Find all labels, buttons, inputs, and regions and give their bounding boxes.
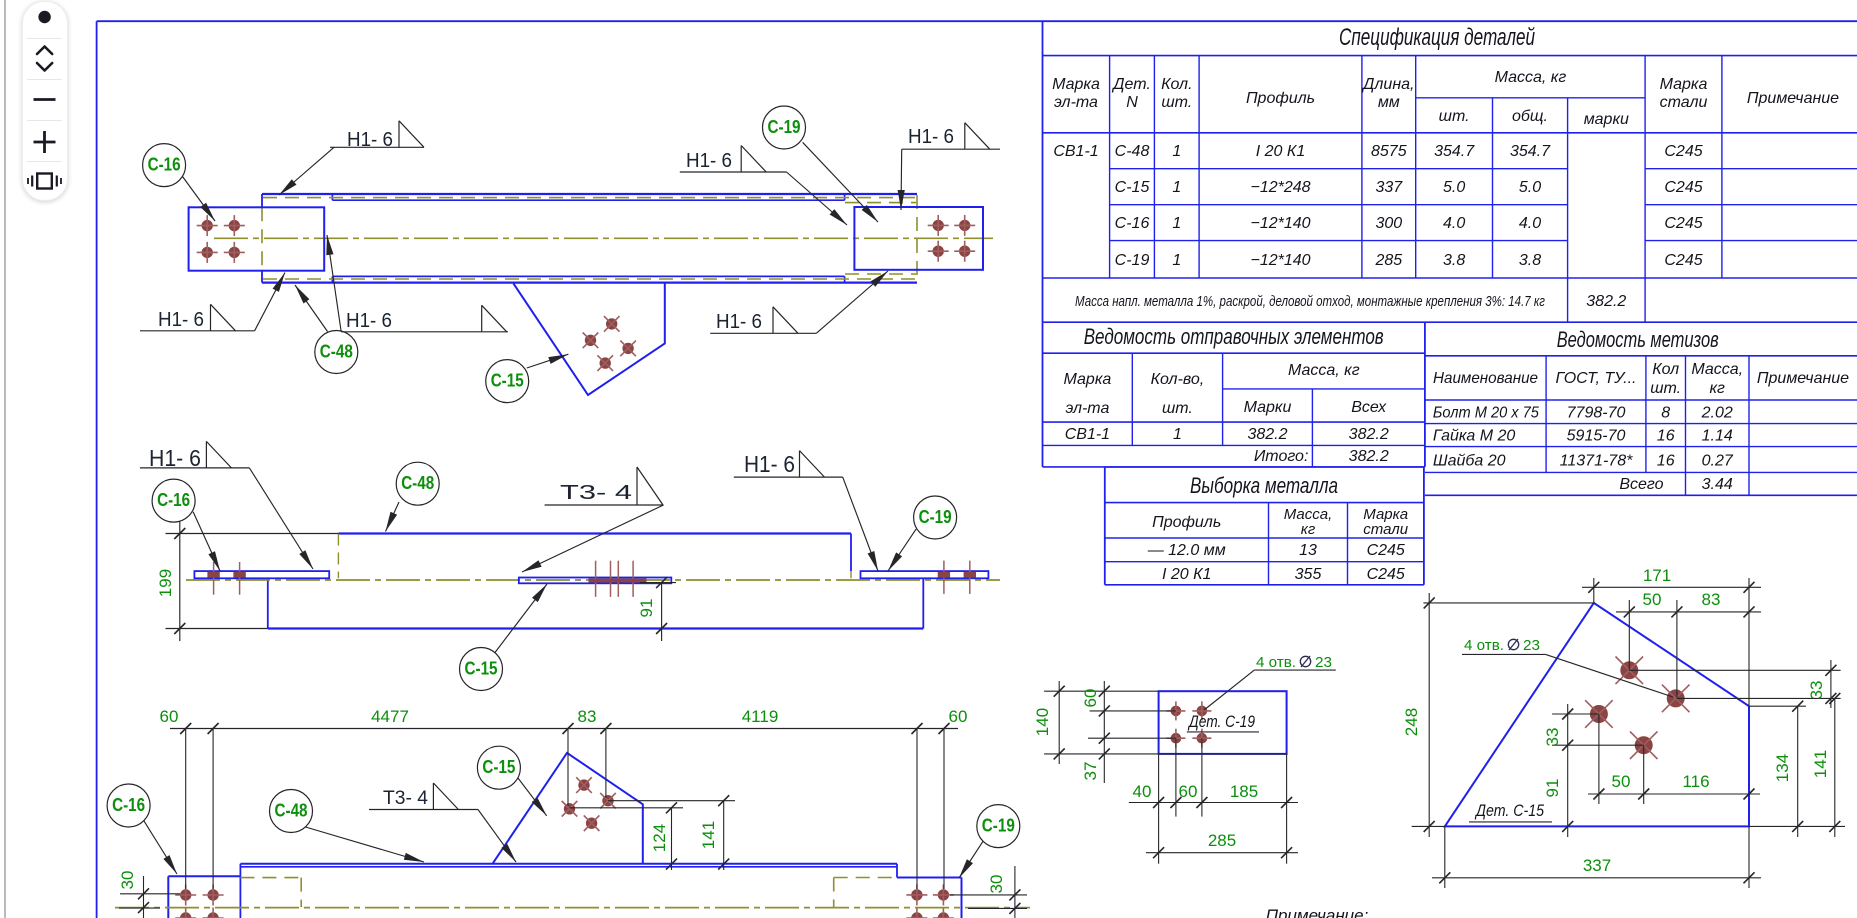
leader to gusset strip: [522, 505, 664, 572]
svg-text:0.27: 0.27: [1702, 453, 1734, 470]
svg-text:355: 355: [1295, 566, 1322, 583]
elevation: bolts on С-16 strip: [207, 562, 245, 595]
leader from С-16 balloon (elev): [193, 512, 220, 571]
svg-text:60: 60: [949, 707, 968, 726]
svg-text:Дет. С-19: Дет. С-19: [1187, 712, 1255, 731]
svg-text:16: 16: [1657, 453, 1675, 470]
svg-text:11371-78*: 11371-78*: [1560, 453, 1633, 470]
svg-text:Масса, кг: Масса, кг: [1288, 362, 1360, 379]
svg-text:1: 1: [1173, 426, 1182, 443]
svg-text:С245: С245: [1664, 143, 1702, 160]
leader from С-15 balloon (bottom): [518, 778, 547, 816]
main dimension chain 60/4477/83/4119/60: [160, 707, 968, 889]
bottom view: beam top edge (double line): [240, 864, 897, 918]
detail С-15: dimensions 50/116 (mid): [1588, 714, 1760, 804]
svg-text:С-19: С-19: [1115, 252, 1150, 269]
dimension 91 (elevation): [637, 577, 676, 641]
svg-text:13: 13: [1299, 542, 1317, 559]
svg-text:300: 300: [1375, 215, 1402, 232]
svg-text:С-48: С-48: [401, 473, 434, 493]
svg-text:2.02: 2.02: [1701, 405, 1733, 422]
svg-text:С245: С245: [1664, 215, 1702, 232]
floating view toolbar: [22, 1, 68, 201]
svg-text:16: 16: [1657, 428, 1675, 445]
balloon С-48 (bottom): [270, 790, 313, 833]
svg-text:354.7: 354.7: [1434, 143, 1475, 160]
bottom view: gusset С-15: [492, 753, 643, 864]
svg-text:33: 33: [1543, 728, 1562, 747]
svg-text:СВ1-1: СВ1-1: [1053, 143, 1098, 160]
svg-text:Марка: Марка: [1064, 371, 1112, 388]
plan view: end plate С-19: [854, 207, 983, 270]
svg-text:199: 199: [156, 569, 175, 597]
svg-text:382.2: 382.2: [1349, 426, 1389, 443]
svg-text:Масса, кг: Масса, кг: [1495, 69, 1567, 86]
detail С-19: dimensions 40/60/185: [1129, 738, 1298, 864]
svg-text:Наименование: Наименование: [1433, 370, 1538, 387]
svg-text:1: 1: [1172, 179, 1181, 196]
detail С-19: bolt holes: [1166, 701, 1211, 747]
svg-text:С-48: С-48: [275, 801, 308, 821]
svg-text:141: 141: [1811, 750, 1830, 778]
svg-text:23: 23: [1315, 654, 1332, 671]
svg-text:эл-та: эл-та: [1065, 400, 1109, 417]
weld label H1-6 (plan bottom-centre): [341, 305, 508, 332]
bolts on С-19 (bottom view): [906, 884, 954, 918]
svg-text:С245: С245: [1664, 179, 1702, 196]
detail С-19: plate outline: [1159, 691, 1287, 754]
svg-text:H1- 6: H1- 6: [744, 451, 795, 477]
svg-text:185: 185: [1230, 782, 1258, 801]
svg-text:С245: С245: [1367, 542, 1405, 559]
weld label Т3-4 (elevation): [545, 467, 664, 505]
leader to С-16 plate edge: [327, 235, 341, 332]
svg-text:60: 60: [160, 707, 179, 726]
balloon С-16 (bottom): [107, 784, 150, 827]
svg-text:Длина,: Длина,: [1361, 76, 1414, 93]
svg-text:H1- 6: H1- 6: [158, 309, 204, 331]
weld label H1-6 (plan top-left): [330, 121, 424, 151]
plan view: centreline: [214, 237, 993, 239]
svg-text:С-15: С-15: [491, 371, 524, 391]
detail С-15: note 4 отв. ∅23: [1462, 637, 1673, 697]
bolts on С-16 (bottom view): [175, 885, 223, 918]
bottom view: hidden plate edges (dashed): [240, 878, 897, 908]
svg-text:4.0: 4.0: [1443, 215, 1465, 232]
svg-text:С-16: С-16: [148, 155, 181, 175]
zoom in icon: [34, 131, 56, 153]
svg-text:−12*140: −12*140: [1250, 215, 1310, 232]
svg-text:эл-та: эл-та: [1054, 94, 1098, 111]
leader from С-19 balloon: [803, 142, 878, 222]
svg-text:H1- 6: H1- 6: [149, 445, 201, 471]
leader to С-19 plate weld: [816, 271, 888, 333]
balloon С-19 (plan): [763, 106, 806, 149]
svg-text:шт.: шт.: [1161, 94, 1192, 111]
detail С-15: dimensions 33/91 (left): [1543, 704, 1644, 837]
leader to С-16 strip: [249, 468, 313, 569]
svg-text:Болт М 20 х 75: Болт М 20 х 75: [1433, 405, 1539, 422]
dimension 30 (bottom right): [950, 866, 1027, 918]
elevation: bolts on С-19 strip: [938, 561, 976, 594]
svg-text:382.2: 382.2: [1586, 293, 1626, 310]
svg-text:С245: С245: [1664, 252, 1702, 269]
svg-text:141: 141: [699, 821, 718, 849]
leader from С-19 balloon (bottom): [959, 841, 983, 878]
detail С-19: note 4 отв. ∅23: [1204, 654, 1336, 710]
detail С-15: title Дет. С-15: [1469, 801, 1552, 822]
weld label H1-6 (plan, before С-19): [680, 146, 787, 173]
svg-text:60: 60: [1179, 782, 1198, 801]
fit to view icon: [28, 174, 61, 189]
table: Специфик. деталей text: [1052, 24, 1839, 310]
svg-text:Кол-во,: Кол-во,: [1151, 371, 1205, 388]
svg-text:5915-70: 5915-70: [1567, 428, 1626, 445]
svg-text:1.14: 1.14: [1702, 428, 1733, 445]
svg-text:337: 337: [1375, 179, 1403, 196]
svg-text:37: 37: [1081, 762, 1100, 781]
svg-text:Шайба 20: Шайба 20: [1433, 453, 1506, 470]
elevation: gusset С-15 strip: [519, 578, 672, 584]
svg-text:140: 140: [1033, 708, 1052, 736]
leader to beam corner: [279, 147, 334, 195]
svg-text:С-19: С-19: [919, 507, 952, 527]
table: Ведомость отправочных элементов: [1043, 322, 1425, 467]
svg-text:С-19: С-19: [768, 117, 801, 137]
svg-text:50: 50: [1612, 772, 1631, 791]
svg-text:С-16: С-16: [1115, 215, 1150, 232]
svg-text:4119: 4119: [742, 707, 779, 726]
svg-text:1: 1: [1172, 143, 1181, 160]
svg-text:СВ1-1: СВ1-1: [1065, 426, 1110, 443]
svg-text:248: 248: [1402, 708, 1421, 736]
elevation: centreline: [186, 579, 1000, 581]
svg-text:1: 1: [1172, 215, 1181, 232]
svg-text:8575: 8575: [1371, 143, 1407, 160]
svg-text:мм: мм: [1378, 94, 1400, 111]
svg-text:4477: 4477: [371, 707, 409, 726]
svg-text:кг: кг: [1301, 521, 1316, 538]
svg-text:Масса напл. металла 1%, раскро: Масса напл. металла 1%, раскрой, деловой…: [1075, 294, 1545, 310]
svg-text:Кол: Кол: [1652, 361, 1679, 378]
leader to С-19 plate: [787, 172, 848, 225]
plan view: beam СВ1-1: [262, 194, 917, 283]
detail С-15: bolt holes: [1585, 657, 1689, 760]
svg-text:H1- 6: H1- 6: [686, 150, 732, 172]
expand chevrons icon: [37, 47, 52, 71]
svg-text:5.0: 5.0: [1443, 179, 1465, 196]
plan view: gusset С-15 under beam: [513, 283, 664, 395]
detail С-15: dimension 141: [1749, 693, 1845, 837]
balloon С-19 (bottom): [977, 805, 1020, 848]
svg-text:Марки: Марки: [1244, 399, 1292, 416]
balloon С-48 (plan): [315, 331, 358, 374]
svg-text:— 12.0 мм: — 12.0 мм: [1147, 542, 1226, 559]
svg-text:382.2: 382.2: [1349, 448, 1389, 465]
detail С-15: dimension 33 (right): [1629, 660, 1840, 708]
weld label H1-6 (elevation right): [734, 451, 843, 478]
elevation: plate С-19 strip: [861, 571, 989, 578]
svg-text:С-15: С-15: [482, 757, 515, 777]
svg-text:91: 91: [1543, 779, 1562, 798]
svg-text:Т3- 4: Т3- 4: [560, 482, 632, 504]
svg-text:Масса,: Масса,: [1691, 361, 1743, 378]
svg-text:91: 91: [637, 599, 656, 618]
svg-text:H1- 6: H1- 6: [716, 311, 762, 333]
svg-text:Кол.: Кол.: [1161, 76, 1192, 93]
leader to gusset weld: [478, 810, 516, 863]
elevation: bolts on С-15 strip: [589, 561, 647, 597]
svg-text:Марка: Марка: [1660, 76, 1708, 93]
weld label H1-6 (plan bottom-left): [140, 304, 255, 331]
leader from С-15 balloon (elev): [495, 584, 547, 653]
leader from С-16 balloon (bottom): [144, 821, 177, 874]
svg-text:Профиль: Профиль: [1246, 90, 1315, 107]
svg-text:83: 83: [578, 707, 597, 726]
balloon С-15 (bottom): [477, 746, 520, 789]
svg-text:N: N: [1126, 94, 1138, 111]
svg-text:С-15: С-15: [465, 659, 498, 679]
svg-text:С-19: С-19: [982, 816, 1015, 836]
svg-text:шт.: шт.: [1439, 108, 1470, 125]
collapsed side panel edge: [4, 0, 6, 918]
svg-text:40: 40: [1133, 782, 1152, 801]
table: Выборка металла: [1105, 467, 1424, 585]
balloon С-48 (elevation): [396, 462, 439, 505]
svg-text:4.0: 4.0: [1519, 215, 1541, 232]
svg-text:Примечание: Примечание: [1757, 370, 1849, 387]
svg-text:Выборка металла: Выборка металла: [1190, 473, 1338, 498]
elevation: hidden beam end lines: [338, 534, 851, 579]
svg-text:60: 60: [1081, 689, 1100, 708]
svg-text:Дет.: Дет.: [1111, 76, 1151, 93]
svg-text:285: 285: [1208, 831, 1236, 850]
svg-text:Профиль: Профиль: [1152, 514, 1221, 531]
dimension 199 (elevation height): [156, 521, 338, 641]
leader from С-48 balloon: [295, 285, 328, 332]
detail С-15: dimension 248: [1402, 593, 1595, 837]
balloon С-16 (plan): [143, 144, 186, 187]
bolts on gusset С-15 (bottom view): [562, 777, 616, 831]
leader from С-48 balloon (bottom): [306, 827, 425, 862]
svg-text:134: 134: [1773, 754, 1792, 782]
svg-text:1: 1: [1172, 252, 1181, 269]
svg-text:шт.: шт.: [1650, 380, 1681, 397]
zoom out icon: [34, 98, 56, 101]
svg-text:ГОСТ, ТУ...: ГОСТ, ТУ...: [1556, 370, 1637, 387]
svg-text:С-48: С-48: [320, 342, 353, 362]
svg-text:Ведомость метизов: Ведомость метизов: [1557, 327, 1719, 352]
dimension 141 (gusset): [608, 795, 735, 870]
balloon С-19 (elevation): [914, 496, 957, 539]
detail С-19: dimension 285: [1146, 831, 1298, 858]
svg-text:шт.: шт.: [1162, 400, 1193, 417]
svg-text:171: 171: [1643, 566, 1671, 585]
leader down to plate: [900, 149, 903, 210]
bolt group on gusset С-15 (plan): [583, 316, 636, 371]
table: Ведомость метизов: [1425, 327, 1857, 495]
svg-text:354.7: 354.7: [1510, 143, 1551, 160]
detail С-19: title Дет. С-19: [1187, 712, 1259, 732]
balloon С-16 (elevation): [152, 479, 195, 522]
bolt group on С-19 plate: [928, 215, 976, 262]
bottom view: plate С-19: [897, 878, 962, 918]
svg-text:кг: кг: [1709, 380, 1725, 397]
svg-text:30: 30: [118, 871, 137, 890]
svg-text:382.2: 382.2: [1247, 426, 1287, 443]
svg-text:H1- 6: H1- 6: [908, 126, 954, 148]
weld label H1-6 (plan bottom-right): [710, 307, 816, 334]
svg-text:Спецификация деталей: Спецификация деталей: [1339, 24, 1535, 51]
svg-text:4 отв.: 4 отв.: [1256, 654, 1296, 671]
elevation: beam flanges: [268, 534, 924, 629]
detail С-15: dimensions 50/83 (top): [1616, 590, 1761, 698]
leader from С-19 balloon (elev): [888, 529, 916, 571]
svg-text:Дет. С-15: Дет. С-15: [1474, 801, 1544, 820]
svg-text:3.44: 3.44: [1702, 476, 1733, 493]
svg-text:С245: С245: [1367, 566, 1405, 583]
svg-text:3.8: 3.8: [1519, 252, 1541, 269]
svg-text:285: 285: [1374, 252, 1402, 269]
svg-text:С-48: С-48: [1115, 143, 1150, 160]
svg-text:−12*140: −12*140: [1250, 252, 1310, 269]
svg-text:Гайка М 20: Гайка М 20: [1433, 428, 1516, 445]
svg-text:83: 83: [1702, 590, 1721, 609]
svg-text:Итого:: Итого:: [1254, 448, 1309, 465]
svg-text:Всех: Всех: [1351, 399, 1387, 416]
bolt group on С-16 plate: [197, 215, 245, 263]
svg-text:стали: стали: [1660, 94, 1708, 111]
svg-text:С-15: С-15: [1115, 179, 1150, 196]
svg-text:общ.: общ.: [1512, 108, 1548, 125]
svg-text:3.8: 3.8: [1443, 252, 1465, 269]
detail С-19: dimensions 60/37: [1081, 681, 1176, 783]
svg-text:Примечание: Примечание: [1747, 90, 1839, 107]
weld label H1-6 (elevation left): [140, 441, 250, 471]
detail С-19: dimension 140: [1033, 681, 1287, 764]
svg-text:Ведомость отправочных элементо: Ведомость отправочных элементов: [1084, 324, 1384, 349]
svg-text:337: 337: [1583, 856, 1611, 875]
detail С-15: dimension 337: [1432, 826, 1761, 888]
dimension 124 (gusset): [570, 802, 684, 870]
svg-text:−12*248: −12*248: [1250, 179, 1310, 196]
svg-text:124: 124: [650, 824, 669, 852]
svg-text:30: 30: [987, 875, 1006, 894]
bottom view: centreline: [115, 907, 1030, 909]
svg-text:I 20 К1: I 20 К1: [1256, 143, 1305, 160]
svg-text:50: 50: [1643, 590, 1662, 609]
elevation: plate С-16 strip: [194, 571, 329, 578]
plan view: hidden flange lines (dashed): [262, 195, 917, 282]
record dot icon: [39, 11, 51, 23]
svg-text:8: 8: [1661, 405, 1670, 422]
svg-text:марки: марки: [1584, 111, 1629, 128]
svg-text:116: 116: [1682, 772, 1709, 791]
svg-text:33: 33: [1807, 681, 1826, 700]
plan view: end plate С-16: [189, 207, 325, 270]
leader from С-16 balloon: [183, 177, 215, 221]
dimension 30 (bottom left): [118, 871, 180, 918]
svg-text:Примечание:: Примечание:: [1266, 906, 1369, 918]
detail С-15: dimension 134: [1749, 701, 1806, 837]
table: Специфик. деталей grid: [1043, 21, 1857, 322]
bottom view: plate С-16: [168, 876, 240, 918]
balloon С-15 (elevation): [460, 648, 503, 691]
svg-text:H1- 6: H1- 6: [346, 310, 392, 332]
svg-text:стали: стали: [1363, 521, 1408, 538]
svg-text:Марка: Марка: [1052, 76, 1100, 93]
weld label H1-6 (plan top-right): [902, 123, 1000, 150]
svg-text:Всего: Всего: [1619, 476, 1663, 493]
weld label Т3-4 (bottom view): [369, 783, 478, 810]
svg-text:I 20 К1: I 20 К1: [1162, 566, 1211, 583]
svg-text:23: 23: [1523, 637, 1540, 654]
leader from С-48 balloon (elev): [386, 502, 400, 532]
svg-text:С-16: С-16: [157, 490, 190, 510]
leader to С-19 strip: [843, 477, 878, 571]
svg-text:7798-70: 7798-70: [1567, 405, 1626, 422]
svg-text:4 отв.: 4 отв.: [1464, 637, 1504, 654]
detail С-15: gusset outline: [1445, 603, 1749, 827]
leader from С-15 balloon: [527, 354, 569, 368]
leader to plate/beam weld: [255, 273, 285, 331]
svg-text:Т3- 4: Т3- 4: [383, 788, 428, 809]
svg-text:С-16: С-16: [112, 795, 145, 815]
balloon С-15 (plan): [486, 360, 529, 403]
svg-text:5.0: 5.0: [1519, 179, 1541, 196]
detail С-15: dimension 171: [1582, 566, 1761, 706]
